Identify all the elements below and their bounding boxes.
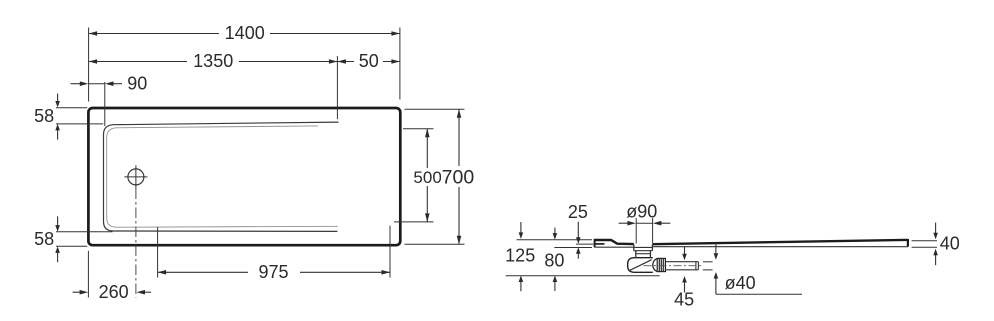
- plan view: shower tray outer rim rect: [88, 108, 400, 245]
- svg-text:80: 80: [544, 250, 564, 270]
- svg-text:125: 125: [505, 246, 535, 266]
- plan inner wall outline (dark thin): [104, 122, 339, 231]
- dim 45 arrow down: [684, 247, 686, 255]
- svg-text:45: 45: [674, 290, 694, 310]
- dim 500 line: [426, 129, 428, 222]
- dim o40 ext stubs at pipe end: [703, 261, 713, 263]
- 58top arrow up: [57, 130, 59, 140]
- 500 top ext line: [403, 128, 434, 130]
- dim o40 arrow up with leader: [715, 278, 717, 295]
- ext line at 1350 mark: [336, 56, 338, 119]
- dim o90 line: [636, 222, 652, 224]
- svg-text:90: 90: [127, 74, 147, 94]
- ext line left for 1400/1350: [88, 28, 90, 102]
- dim 1350 line: [89, 61, 338, 63]
- svg-text:50: 50: [359, 51, 379, 71]
- 500 bottom ext line: [394, 221, 434, 223]
- drain circle: [128, 169, 144, 185]
- drain flange below tray: [633, 244, 635, 251]
- dim 40 ext stubs at tray right end: [912, 240, 937, 242]
- dim 25 arrow up: [577, 253, 579, 259]
- outlet pipe top: [666, 261, 699, 263]
- section: tray lip groove line: [595, 243, 605, 245]
- section: tray bottom line right of drain: [653, 246, 908, 248]
- dim 125 arrow up: [520, 281, 522, 291]
- dim 90 outside arrow left: [71, 83, 81, 85]
- svg-text:ø90: ø90: [626, 202, 657, 222]
- svg-text:ø40: ø40: [725, 273, 756, 293]
- dim 975 line: [158, 271, 390, 273]
- pipe centerline dash-dot: [644, 265, 704, 267]
- drain centerline dash-dot down to 260 dim: [135, 189, 137, 298]
- 260 outside arrow left: [73, 291, 81, 293]
- section: tray bottom line left of drain: [595, 246, 634, 248]
- section: tray left lip top edge: [595, 240, 634, 244]
- svg-text:700: 700: [442, 167, 475, 189]
- dim 80 arrow down: [554, 228, 556, 234]
- section: tray left end cap: [594, 239, 596, 247]
- section ref line B (surface step level): [576, 243, 593, 245]
- 975 left ext line: [157, 227, 159, 277]
- 260 left ext line: [87, 251, 89, 298]
- ext line at 90 mark: [104, 82, 106, 126]
- section: tray top surface right of drain (slopes up to right): [653, 240, 908, 244]
- 975 right ext line: [389, 226, 391, 278]
- 58bot ext line upper: [56, 231, 113, 233]
- section bottom reference line: [506, 275, 660, 277]
- svg-text:58: 58: [34, 229, 54, 249]
- plan inner slope line (faint): [107, 126, 338, 227]
- dim o40 arrow down: [715, 243, 717, 254]
- dim 1400 line: [89, 33, 400, 35]
- 58top ext line upper: [56, 107, 87, 109]
- svg-text:500: 500: [413, 168, 441, 187]
- dim 40 arrow up: [935, 255, 937, 265]
- section ref line A (rim top level): [517, 239, 593, 241]
- trap outlet ribbed nut: [657, 258, 665, 271]
- trap outlet nut rounded end: [653, 259, 657, 272]
- 700 top ext line: [405, 108, 465, 110]
- 260 outside arrow right: [143, 291, 152, 293]
- dim o90 ext lines: [635, 218, 637, 244]
- outlet pipe end caps: [695, 262, 697, 270]
- dim 125 arrow down: [520, 222, 522, 233]
- svg-text:25: 25: [568, 202, 588, 222]
- svg-text:975: 975: [258, 262, 288, 282]
- svg-text:1400: 1400: [225, 23, 265, 43]
- 58bot arrow down: [57, 216, 59, 225]
- section ref line C (tray bottom level): [554, 247, 592, 249]
- drain crosshair horizontal: [124, 176, 147, 178]
- outlet pipe bottom: [666, 269, 699, 271]
- dim o90 outside arrow left: [619, 222, 629, 224]
- ext line right for 1400/50: [399, 28, 401, 100]
- dim o40 leader horizontal: [716, 293, 802, 295]
- 58top arrow down: [57, 94, 59, 102]
- dim 45 arrow up: [684, 282, 686, 292]
- svg-text:260: 260: [99, 282, 129, 302]
- dim 50 line: [337, 61, 400, 63]
- svg-text:40: 40: [940, 234, 960, 254]
- dim 80 arrow up: [554, 281, 556, 291]
- svg-text:58: 58: [34, 106, 54, 126]
- dim 40 arrow down: [935, 223, 937, 233]
- siphon trap body: [628, 258, 653, 273]
- 58top ext line lower: [56, 123, 103, 125]
- dim 90 line between ext lines: [89, 83, 105, 85]
- dim o90 outside arrow right: [660, 222, 670, 224]
- 58bot ext line lower: [56, 245, 87, 247]
- section: tray right end cap: [907, 239, 909, 247]
- dim 90 outside arrow right with shaft: [111, 83, 123, 85]
- drain crosshair vertical: [135, 165, 137, 188]
- 700 bottom ext line: [405, 243, 465, 245]
- trap diagonal line: [630, 260, 652, 271]
- 58bot arrow up: [57, 253, 59, 263]
- dim 25 arrow down: [577, 222, 579, 238]
- dim 700 line: [458, 109, 460, 244]
- svg-text:1350: 1350: [193, 51, 233, 71]
